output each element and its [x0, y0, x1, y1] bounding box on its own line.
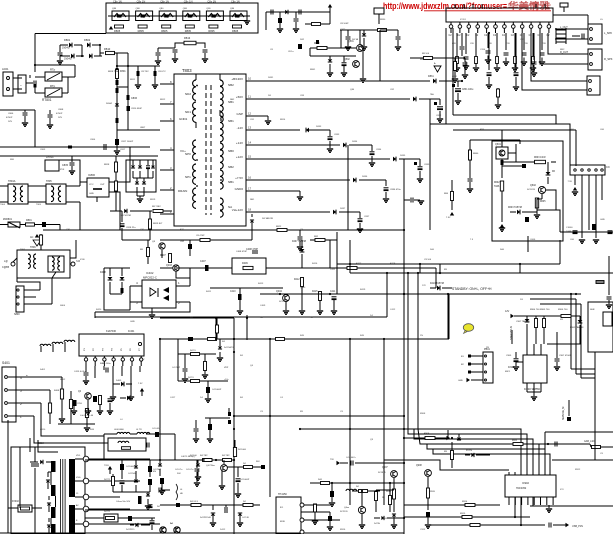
zener D451 [218, 346, 222, 349]
svg-text:R412: R412 [294, 279, 300, 281]
svg-text:R905 700: R905 700 [540, 309, 550, 311]
svg-text:C409: C409 [260, 305, 266, 307]
svg-text:4700P: 4700P [6, 117, 13, 119]
resistor [496, 33, 498, 56]
svg-text:T806: T806 [20, 249, 26, 251]
row VH+12V [258, 211, 330, 213]
resistor R604 [535, 198, 538, 208]
resistor R402 [60, 389, 63, 399]
wire [61, 412, 63, 418]
T803 pin 7 [160, 103, 174, 105]
top comparator array box [106, 3, 258, 33]
wire bus into IC bottom-left [384, 460, 509, 470]
capacitor C810 main filter [34, 447, 36, 462]
wire [581, 230, 583, 238]
highlight note [463, 324, 473, 332]
svg-text:R912: R912 [575, 469, 581, 471]
wire standby rail y294 [260, 293, 581, 295]
wire bus y230 [43, 229, 404, 231]
svg-text:NB2: NB2 [228, 165, 234, 169]
wire bus nest [300, 429, 521, 475]
svg-text:D407 TA5748: D407 TA5748 [292, 240, 307, 243]
wire [104, 267, 130, 269]
svg-text:R812: R812 [160, 99, 166, 101]
resistor R860 [317, 47, 327, 50]
resistor R430 [233, 448, 236, 457]
service box [588, 302, 613, 352]
resistor R820b [153, 210, 163, 213]
svg-text:T806: T806 [30, 246, 36, 249]
wire vertical x418 [417, 273, 419, 429]
zener D806 [115, 103, 119, 106]
fusible resistor F801 [116, 68, 119, 73]
diode D833 [306, 128, 309, 133]
capacitor C808 [116, 88, 119, 93]
capacitor C905 [514, 359, 519, 362]
svg-text:C4 1N50: C4 1N50 [128, 473, 137, 475]
top diode row right of box [266, 11, 330, 13]
svg-text:D4 PR15: D4 PR15 [126, 529, 135, 531]
svg-text:GND1: GND1 [179, 117, 188, 121]
capacitor C428 [340, 462, 348, 464]
capacitor C914 [549, 523, 551, 528]
svg-text:C4 1000P: C4 1000P [212, 389, 222, 391]
wire [161, 250, 163, 258]
resistor R405 [99, 396, 102, 405]
wire rail y317 [95, 316, 387, 318]
resistor network RN201 [555, 28, 557, 44]
svg-text:S800: S800 [14, 313, 20, 316]
svg-text:R4 T0: R4 T0 [190, 350, 196, 352]
wire [380, 29, 398, 31]
svg-text:C913: C913 [420, 529, 426, 531]
wire [435, 268, 437, 288]
svg-text:Q404: Q404 [276, 290, 283, 293]
wire x520 drop [519, 264, 521, 273]
svg-text:D834: D834 [352, 141, 358, 143]
svg-text:D831: D831 [428, 75, 434, 78]
capacitor C414 [108, 399, 113, 402]
ground [531, 397, 537, 400]
wire [74, 65, 76, 77]
svg-text:C408 470P: C408 470P [236, 251, 247, 253]
svg-text:R_SPK: R_SPK [604, 57, 613, 61]
warning triangle [434, 66, 441, 72]
svg-text:R4 T0: R4 T0 [188, 377, 194, 379]
row +12V [258, 158, 390, 160]
svg-text:R805: R805 [161, 29, 168, 33]
lower row y505 [160, 504, 260, 506]
polarity marks [452, 84, 455, 87]
capacitor C810b [127, 106, 131, 111]
ground [130, 392, 132, 396]
diode D901 [525, 319, 530, 322]
svg-text:R911: R911 [512, 440, 518, 442]
svg-text:C831 100u: C831 100u [462, 89, 474, 91]
svg-text:T804A: T804A [8, 180, 16, 183]
winding NV1 [220, 116, 223, 129]
wire rail y264 [337, 263, 560, 265]
svg-text:C8 470P: C8 470P [196, 235, 205, 237]
svg-text:C4 T46: C4 T46 [242, 517, 250, 519]
svg-text:GAB_L1N: GAB_L1N [584, 440, 595, 443]
zener D807 [131, 165, 135, 168]
svg-text:R402: R402 [60, 379, 66, 381]
svg-text:R8 TJRC: R8 TJRC [152, 206, 161, 208]
capacitor C809 [116, 118, 119, 123]
svg-text:13: 13 [248, 126, 252, 130]
winding NB1 [220, 99, 223, 118]
wire [127, 53, 129, 110]
resistor R406 [85, 409, 88, 418]
svg-text:36V: 36V [256, 461, 260, 463]
svg-text:C4 0.047u: C4 0.047u [346, 457, 356, 459]
wire [59, 225, 61, 231]
zener D408 [109, 268, 111, 276]
svg-text:C8x 1N: C8x 1N [113, 0, 122, 4]
svg-text:L_SPK: L_SPK [604, 31, 612, 35]
CN601 wires down [574, 175, 576, 185]
resistor R914 [465, 504, 475, 507]
capacitor C833 [328, 137, 333, 140]
resistor R812 [137, 71, 140, 76]
capacitor C453 [206, 387, 210, 393]
svg-text:C810 550P: C810 550P [131, 108, 142, 110]
diode D412 [211, 513, 215, 516]
svg-text:VDD: VDD [76, 455, 81, 457]
wire rail y460 [145, 459, 235, 461]
capacitor C208 [515, 33, 517, 70]
svg-text:D8 A2: D8 A2 [106, 102, 113, 105]
resistor R617 [596, 281, 604, 284]
wire S401 pin1 route [34, 416, 108, 443]
diode D902 [578, 320, 583, 323]
svg-text:C833: C833 [334, 134, 340, 136]
capacitor C413 [73, 400, 77, 406]
svg-text:VCC: VCC [89, 184, 94, 186]
capacitor C820b [299, 230, 301, 236]
ground [361, 514, 363, 524]
wire [127, 53, 129, 130]
wire [177, 339, 179, 381]
rail y510 [85, 509, 160, 511]
ground [145, 506, 151, 509]
svg-text:7.5V: 7.5V [568, 181, 573, 183]
wire rail y273 [350, 272, 613, 274]
svg-text:11: 11 [248, 95, 251, 99]
svg-text:12V: 12V [505, 310, 510, 313]
svg-text:C4 4.7u: C4 4.7u [175, 469, 183, 471]
svg-text:HCF4052: HCF4052 [516, 487, 527, 490]
wire [58, 423, 95, 425]
resistor R446 [321, 482, 330, 485]
svg-text:R605: R605 [540, 201, 546, 203]
ground [172, 59, 178, 62]
capacitor C839 [404, 199, 410, 201]
resistor R842 [469, 150, 472, 160]
wire [35, 64, 75, 66]
svg-text:KIA7630: KIA7630 [106, 329, 117, 333]
resistor R811 [116, 70, 119, 79]
capacitor C802 [59, 45, 61, 52]
diode D801 [60, 44, 68, 46]
svg-text:Q403: Q403 [166, 264, 173, 267]
transistor Q602 [538, 186, 545, 193]
resistor R920 [427, 488, 430, 498]
svg-text:Q601: Q601 [495, 143, 502, 146]
svg-text:C4 4.7u: C4 4.7u [186, 469, 194, 471]
wire [349, 240, 351, 273]
svg-text:GND0: GND0 [235, 187, 244, 191]
resistor R861 [424, 57, 433, 60]
cap pair below [279, 12, 281, 18]
wire [117, 65, 160, 67]
svg-text:F9 1N: F9 1N [466, 450, 472, 452]
ground [137, 199, 143, 202]
resistor R452 [191, 353, 200, 356]
choke T804 [8, 184, 28, 204]
wire [176, 268, 190, 286]
svg-text:R840: R840 [473, 153, 479, 155]
resistor R454 [191, 380, 200, 383]
capacitor [523, 33, 525, 50]
svg-text:R4 TR2: R4 TR2 [200, 455, 208, 457]
svg-text:1N5407: 1N5407 [64, 58, 73, 61]
protect circuit box [492, 141, 563, 241]
svg-text:SC2120: SC2120 [340, 511, 348, 513]
row y444 right [524, 443, 590, 445]
wire [447, 294, 449, 339]
resistor R407 [169, 254, 172, 263]
transistor Q801 [357, 45, 364, 52]
photo interrupter Q601 [496, 147, 508, 159]
capacitor C440 [155, 432, 159, 437]
vertical x216 upper [215, 318, 217, 339]
svg-text:D836: D836 [362, 176, 368, 178]
varistor ZNR801 [8, 222, 20, 228]
wire [535, 4, 537, 8]
svg-text:D902 TA5748: D902 TA5748 [570, 326, 584, 329]
svg-text:GND: GND [130, 321, 135, 323]
inductor L404 [346, 489, 357, 491]
svg-text:T805: T805 [36, 204, 42, 206]
capacitor C910 [555, 442, 557, 447]
svg-text:1KV: 1KV [58, 117, 63, 119]
svg-text:C905: C905 [506, 355, 512, 357]
svg-text:L@: L@ [4, 260, 8, 263]
thermistor RT801a [35, 76, 45, 78]
capacitor C832 [437, 107, 443, 110]
svg-text:R409: R409 [242, 262, 248, 265]
arrow 12V [510, 314, 514, 318]
svg-text:C4 1000P: C4 1000P [240, 479, 250, 481]
capacitor C441 [147, 443, 149, 448]
svg-text:C412: C412 [390, 309, 396, 311]
resistor [475, 33, 477, 56]
zener D409 [121, 268, 123, 276]
svg-text:C415: C415 [100, 363, 106, 365]
svg-text:NB1: NB1 [228, 119, 234, 123]
svg-text:MPC822-C: MPC822-C [143, 276, 157, 280]
svg-text:C810: C810 [38, 442, 44, 445]
wire bus nest verticals [383, 339, 385, 505]
wire [560, 124, 570, 166]
svg-text:C408 470P: C408 470P [246, 248, 258, 251]
wire [160, 239, 190, 241]
capacitor C803 [68, 146, 72, 149]
svg-text:C822: C822 [340, 29, 346, 31]
S401 wires [8, 376, 62, 378]
bottom border wire [0, 532, 404, 534]
transistor Q403 [173, 265, 179, 271]
svg-text:-14V: -14V [237, 126, 243, 130]
svg-text:1KV: 1KV [8, 121, 13, 123]
arrow 7.5V [450, 212, 454, 216]
svg-text:CN: CN [606, 166, 610, 169]
capacitor C425 [160, 478, 164, 484]
resistor R409 [243, 266, 253, 269]
svg-text:R413: R413 [258, 283, 264, 285]
junction [331, 482, 333, 484]
resistor R919 [393, 489, 396, 499]
ground row [73, 406, 75, 410]
capacitor C451 [188, 337, 192, 341]
svg-text:T803: T803 [182, 68, 192, 73]
wire [376, 489, 394, 491]
capacitor C407 [205, 265, 209, 271]
wire [16, 272, 18, 282]
svg-text:C831: C831 [452, 76, 458, 78]
resistor R841 [451, 192, 454, 201]
mosfet Q405 [221, 465, 228, 472]
capacitor C827 [397, 30, 399, 36]
capacitor C209 [533, 33, 535, 60]
resistor R403 [69, 400, 72, 409]
resistor R602 [500, 181, 503, 191]
wire [19, 447, 21, 508]
winding NB4 [220, 170, 223, 189]
svg-text:C4 0.01u: C4 0.01u [152, 428, 161, 430]
svg-text:R408: R408 [54, 390, 60, 392]
wire left edge [7, 420, 9, 533]
svg-text:MOD: MOD [280, 521, 286, 523]
svg-text:R805: R805 [232, 29, 239, 33]
svg-text:L408 6800: L408 6800 [114, 429, 125, 431]
capacitor C824 [342, 63, 347, 66]
svg-text:R805: R805 [114, 29, 121, 33]
svg-text:D4 TA: D4 TA [374, 522, 380, 525]
wire [545, 431, 613, 433]
svg-text:D408: D408 [100, 271, 106, 274]
svg-text:NB1: NB1 [228, 180, 234, 184]
capacitor C416 [103, 366, 105, 370]
svg-text:R805: R805 [185, 29, 192, 33]
wire into T803 [117, 129, 160, 131]
wire vertical x337 [336, 240, 338, 294]
svg-text:IC902: IC902 [522, 481, 529, 485]
svg-text:D8 TA5748: D8 TA5748 [262, 217, 274, 220]
svg-text:FX002: FX002 [12, 501, 19, 503]
svg-text:C834: C834 [376, 149, 382, 151]
thermistor RT801b [45, 88, 62, 97]
svg-text:R8 100: R8 100 [422, 53, 430, 55]
vertical x337 extend [336, 232, 338, 240]
rail y460 [85, 459, 216, 461]
diode D813 [47, 525, 51, 528]
svg-text:VRP: VRP [224, 367, 229, 369]
capacitor C445 [148, 479, 152, 485]
svg-text:C806: C806 [8, 113, 14, 115]
connector AC801 [3, 72, 13, 96]
T803 pin 6 [160, 120, 174, 122]
diode D419 [158, 463, 162, 466]
capacitor C442 [120, 464, 124, 470]
capacitor C424 [195, 469, 200, 471]
winding ND2 [193, 80, 196, 100]
svg-text:C907 4700P: C907 4700P [559, 355, 572, 357]
capacitor C811 [157, 48, 159, 52]
PB01 wiring [471, 355, 483, 357]
svg-text:R915: R915 [460, 513, 466, 515]
svg-text:R813: R813 [184, 36, 191, 40]
svg-text:C415 0.05u: C415 0.05u [74, 371, 86, 373]
resistor R445b [314, 504, 317, 512]
wire rail y156 [87, 155, 158, 157]
wire vertical x160 [159, 339, 161, 460]
wire [34, 84, 36, 93]
arrow [109, 26, 113, 30]
transistor Q803 [159, 243, 165, 249]
wire [501, 144, 503, 147]
wire [404, 504, 440, 506]
svg-text:+B/130V: +B/130V [231, 77, 243, 81]
resistor R906 [561, 315, 571, 318]
wires pin field [445, 28, 447, 124]
svg-text:C8x 1N: C8x 1N [160, 0, 169, 4]
wire [113, 491, 150, 493]
zener D808 [138, 165, 142, 168]
wire [501, 130, 503, 144]
IC902 gnd [548, 505, 550, 508]
svg-text:S401: S401 [40, 369, 46, 371]
resistor R831 [378, 29, 387, 32]
capacitor C819 [146, 166, 150, 169]
svg-text:R_OUT: R_OUT [560, 51, 569, 54]
svg-text:R914: R914 [462, 501, 468, 503]
diode D803 [60, 55, 70, 57]
capacitor C838 [469, 172, 471, 178]
junction [233, 338, 235, 340]
row GND0 [258, 190, 300, 192]
wire vertical x234 [233, 318, 235, 534]
svg-text:S401: S401 [2, 361, 10, 365]
ground [244, 21, 250, 24]
zener D602 [546, 172, 551, 175]
svg-text:R4 TR: R4 TR [104, 479, 110, 481]
svg-text:TA06: TA06 [494, 185, 500, 188]
T802 winding step connectors [50, 472, 52, 485]
svg-text:GND: GND [458, 380, 463, 382]
transistor Q802 [353, 61, 360, 68]
svg-text:NP1: NP1 [185, 175, 191, 179]
connector S800 [16, 286, 24, 312]
row y460 right [552, 459, 613, 461]
svg-text:C810: C810 [40, 429, 46, 431]
svg-text:100P: 100P [566, 231, 572, 233]
diode D837 [333, 210, 336, 215]
wire [430, 123, 446, 125]
T803 pin 2 [160, 189, 174, 191]
